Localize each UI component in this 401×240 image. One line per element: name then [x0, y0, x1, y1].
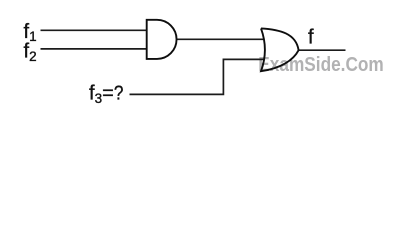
OR gate U2: [261, 28, 299, 71]
wire f1 input: [41, 29, 148, 31]
AND gate U1: [147, 20, 177, 59]
svg-text:f2: f2: [24, 41, 37, 64]
svg-text:f3=: f3=: [89, 83, 114, 106]
svg-text:ExamSide.Com: ExamSide.Com: [258, 53, 383, 75]
wire f3 input with corner junction: [130, 59, 264, 94]
svg-text:f: f: [308, 26, 314, 48]
wire OR output f: [299, 49, 346, 51]
wire f2 input: [41, 48, 148, 50]
svg-text:?: ?: [114, 81, 124, 104]
wire AND output to OR input: [176, 38, 265, 40]
